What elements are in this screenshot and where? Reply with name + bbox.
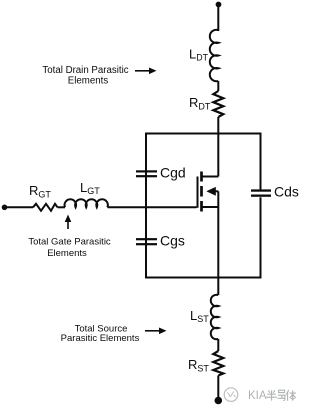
svg-text:Parasitic Elements: Parasitic Elements (61, 333, 140, 344)
svg-text:LST: LST (190, 308, 209, 324)
svg-text:Total Gate Parasitic: Total Gate Parasitic (28, 237, 111, 248)
svg-text:Elements: Elements (68, 76, 109, 87)
svg-text:Cgs: Cgs (160, 233, 185, 249)
svg-text:KIA: KIA (248, 390, 267, 402)
svg-text:RDT: RDT (189, 95, 211, 112)
svg-text:LDT: LDT (189, 47, 209, 63)
svg-text:RGT: RGT (29, 183, 51, 200)
svg-text:Cds: Cds (274, 184, 299, 200)
svg-text:Elements: Elements (47, 248, 87, 259)
svg-text:LGT: LGT (80, 180, 100, 196)
svg-text:Cgd: Cgd (160, 165, 186, 181)
svg-text:Total Drain Parasitic: Total Drain Parasitic (42, 65, 128, 76)
svg-text:RST: RST (188, 357, 209, 374)
